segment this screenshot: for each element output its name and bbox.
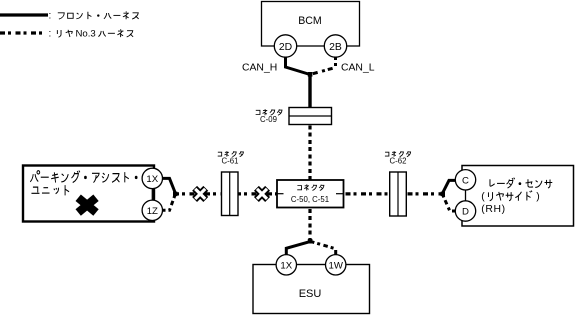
label konekuta C-09 [256, 110, 260, 114]
splice X mark 2 [256, 188, 267, 199]
wire dashed C-50 box to ESU junction [308, 208, 311, 242]
svg-text:1W: 1W [329, 260, 344, 271]
svg-text:No.3: No.3 [76, 28, 96, 39]
connector C [455, 170, 475, 190]
wire solid 1X to left merge [161, 178, 175, 193]
label konekuta C-50,C-51 [297, 186, 301, 190]
svg-text:BCM: BCM [298, 15, 322, 27]
svg-text:2B: 2B [329, 42, 342, 53]
svg-text:1X: 1X [146, 174, 158, 185]
wire dashed left merge to C-50 box [174, 192, 277, 195]
node left merge [173, 192, 177, 196]
connector 2B [324, 35, 346, 57]
svg-text::: : [49, 11, 52, 22]
legend solid line: front harness [0, 13, 48, 16]
connector 1W [326, 255, 346, 275]
label radar sensor line1 [490, 179, 495, 186]
svg-text:C-61: C-61 [222, 156, 239, 165]
svg-text:C: C [462, 175, 469, 186]
stub right inside C-50 box [336, 193, 344, 195]
svg-text:): ) [536, 192, 539, 203]
connector C-09 [289, 108, 332, 125]
connector 1X (ESU) [276, 255, 296, 275]
svg-text:(RH): (RH) [481, 204, 505, 215]
wire dashed junction to 1W [310, 241, 336, 256]
svg-text:(: ( [481, 192, 485, 203]
connector D [455, 201, 475, 221]
splice X mark 1 [195, 188, 206, 199]
connector 1X (parking unit) [142, 168, 162, 188]
stub left inside C-50 box [277, 193, 284, 195]
svg-text:C-09: C-09 [260, 115, 277, 124]
legend dashed line: rear No.3 harness [0, 31, 47, 34]
node: CAN junction [308, 72, 313, 77]
gap in radar box edge between C and D [460, 186, 464, 204]
connector C-62 [390, 172, 407, 216]
label konekuta C-61 [218, 152, 222, 156]
svg-text:C-50, C-51: C-50, C-51 [291, 195, 329, 204]
svg-text:CAN_H: CAN_H [242, 63, 277, 74]
wire dashed D to right merge [443, 195, 457, 211]
node ESU junction [308, 239, 313, 244]
svg-text:1X: 1X [280, 260, 292, 271]
svg-text:1Z: 1Z [147, 206, 158, 217]
wire CAN_L dashed from 2B to junction [311, 55, 336, 74]
svg-text:D: D [462, 207, 469, 218]
wire solid C to right merge [443, 180, 457, 193]
wire dashed C-09 to C-50 box [308, 125, 311, 181]
label parking assist unit line2 [31, 187, 39, 193]
ESU box [253, 265, 370, 314]
wire dashed 1Z to left merge [161, 195, 175, 210]
connector 2D [274, 35, 296, 57]
wire solid junction to C-09 [308, 73, 311, 109]
svg-text:2D: 2D [279, 42, 292, 53]
svg-text:C-62: C-62 [390, 156, 407, 165]
BCM box [262, 2, 360, 47]
svg-text:CAN_L: CAN_L [341, 63, 375, 74]
parking assist unit box [23, 166, 154, 222]
label parking assist unit line1 [30, 171, 39, 182]
connector C-61 [222, 172, 239, 216]
radar sensor box [462, 166, 574, 227]
svg-text:ESU: ESU [299, 288, 322, 300]
node right merge [441, 192, 445, 196]
wire solid junction to 1X (ESU) [286, 241, 311, 256]
connector 1Z [142, 200, 162, 220]
wire dashed C-50 box to right merge [344, 192, 444, 195]
label konekuta C-62 [385, 152, 389, 156]
svg-text::: : [49, 29, 52, 40]
wire between C and D [465, 187, 467, 203]
bold X inside parking assist unit [78, 198, 96, 213]
connector box C-50, C-51 [277, 180, 344, 208]
wire between 1X and 1Z [151, 186, 153, 202]
wire CAN_H solid from 2D to junction [286, 55, 311, 75]
